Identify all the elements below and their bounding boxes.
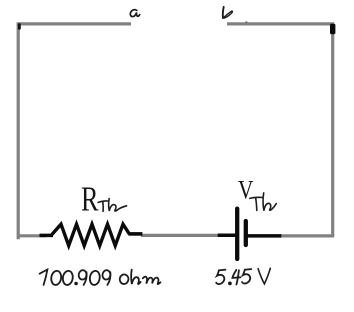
battery VTh left lead: [218, 233, 237, 237]
label VTh (Th subscript, handwritten): [250, 193, 276, 211]
wire (right vertical): [331, 24, 334, 236]
battery VTh right lead: [248, 234, 282, 238]
svg-text:V: V: [238, 177, 253, 205]
resistor RTh zigzag: [51, 224, 130, 245]
node b: [223, 7, 233, 18]
value label 5.45 V: [216, 268, 270, 284]
junction mark top-left corner: [18, 23, 21, 29]
wire (left vertical): [17, 23, 20, 239]
value label 100.909 ohm: [40, 270, 161, 286]
battery VTh long plate: [235, 209, 239, 259]
label RTh (Th subscript, handwritten): [98, 199, 126, 212]
wire (top right segment, from terminal b): [227, 22, 334, 25]
wire (bottom right, battery to corner): [280, 234, 334, 237]
junction mark top-right corner: [330, 24, 335, 35]
junction speck above wire near b: [245, 21, 247, 23]
wire (top left segment, to terminal a): [17, 22, 131, 25]
resistor RTh left lead: [40, 234, 54, 238]
wire (bottom left, corner to resistor): [17, 234, 46, 237]
wire (bottom middle, resistor to battery): [141, 234, 222, 237]
svg-text:R: R: [81, 179, 99, 219]
battery VTh short plate: [244, 221, 248, 245]
node a: [130, 10, 139, 17]
resistor RTh right lead: [129, 232, 143, 236]
